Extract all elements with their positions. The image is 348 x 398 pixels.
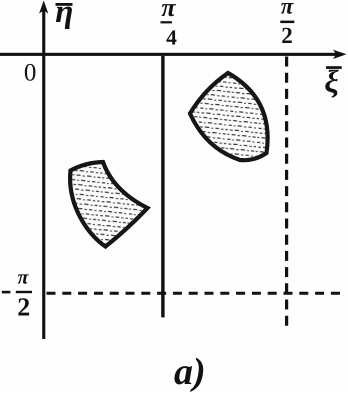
- wire: dashed horizontal line at eta = -pi/2: [47, 292, 345, 295]
- svg-text:0: 0: [24, 60, 37, 87]
- svg-text:π: π: [281, 0, 295, 19]
- svg-text:ξ: ξ: [324, 63, 339, 99]
- arrowhead of eta axis: [39, 1, 48, 14]
- arrowhead of xi axis: [333, 50, 347, 59]
- label: xi bar (horizontal axis): [324, 63, 341, 99]
- label: eta bar (vertical axis): [55, 0, 73, 30]
- wire: vertical axis eta: [42, 8, 45, 339]
- wire: solid vertical line at xi = pi/4: [161, 56, 164, 318]
- svg-text:π: π: [18, 266, 30, 288]
- svg-text:η: η: [55, 0, 73, 30]
- node: hatched region lower left: [70, 162, 147, 247]
- svg-text:a): a): [174, 351, 206, 393]
- label: -pi/2 fraction (left): [2, 266, 32, 321]
- wire: horizontal axis xi: [0, 53, 338, 56]
- label: pi/4 fraction: [161, 0, 178, 50]
- wire: dashed vertical line at xi = pi/2: [285, 57, 288, 329]
- svg-text:4: 4: [166, 26, 177, 50]
- node: hatched region upper right: [190, 73, 268, 160]
- label: pi/2 fraction (top): [280, 0, 294, 48]
- svg-text:π: π: [161, 0, 176, 22]
- svg-text:2: 2: [281, 23, 293, 48]
- svg-text:2: 2: [17, 293, 30, 322]
